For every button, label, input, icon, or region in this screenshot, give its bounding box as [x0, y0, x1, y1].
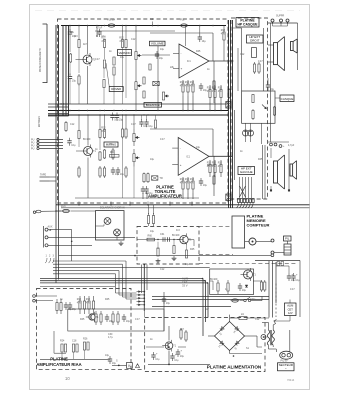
svg-text:CASQUE: CASQUE — [281, 97, 294, 101]
svg-text:BC109: BC109 — [210, 278, 218, 281]
svg-text:SUPPR: SUPPR — [276, 15, 285, 18]
svg-text:PRISE DIN MAGNETO: PRISE DIN MAGNETO — [39, 48, 42, 72]
svg-text:10µ: 10µ — [105, 354, 110, 357]
svg-text:10µ: 10µ — [115, 173, 120, 176]
svg-text:IC3: IC3 — [176, 229, 180, 232]
svg-text:10µ: 10µ — [295, 279, 300, 282]
svg-text:+: + — [181, 67, 183, 71]
svg-text:CET: CET — [182, 280, 188, 284]
svg-text:AMPLIFICATEUR RIAA: AMPLIFICATEUR RIAA — [36, 362, 81, 367]
svg-text:10µ: 10µ — [150, 230, 155, 233]
svg-text:TAPE: TAPE — [40, 174, 46, 177]
svg-text:10µ: 10µ — [160, 48, 165, 51]
svg-text:100n: 100n — [250, 298, 256, 301]
svg-text:C61: C61 — [160, 233, 165, 236]
svg-text:TR: TR — [160, 177, 163, 180]
svg-text:BALANCE: BALANCE — [146, 103, 160, 107]
svg-text:10µ: 10µ — [112, 362, 117, 365]
svg-text:VERSION: VERSION — [119, 51, 131, 55]
svg-text:4,7µ: 4,7µ — [108, 336, 113, 339]
svg-text:10µ: 10µ — [120, 56, 125, 59]
svg-text:CET: CET — [288, 307, 294, 311]
svg-text:10µ: 10µ — [180, 355, 185, 358]
svg-text:10µ: 10µ — [72, 80, 77, 83]
svg-text:C12: C12 — [70, 123, 75, 126]
svg-text:10µ: 10µ — [72, 308, 77, 311]
svg-text:C12: C12 — [255, 318, 260, 321]
svg-text:DRIVER: DRIVER — [111, 87, 121, 91]
svg-text:10µ: 10µ — [203, 184, 208, 187]
svg-text:C18: C18 — [72, 340, 77, 343]
svg-text:R45: R45 — [196, 50, 201, 53]
svg-text:0.47: 0.47 — [135, 318, 140, 321]
svg-text:C12: C12 — [240, 53, 245, 56]
svg-text:+: + — [180, 163, 182, 167]
svg-text:10µ: 10µ — [148, 125, 153, 128]
svg-text:~: ~ — [285, 367, 287, 371]
svg-text:33 V: 33 V — [182, 283, 188, 287]
svg-text:HP CASQUE: HP CASQUE — [237, 23, 258, 27]
svg-text:10µ: 10µ — [159, 57, 164, 60]
svg-text:10µ: 10µ — [143, 125, 148, 128]
svg-text:PU: PU — [31, 148, 35, 151]
svg-text:0.47: 0.47 — [95, 58, 100, 61]
svg-text:0.47: 0.47 — [131, 123, 136, 126]
svg-text:AUX: AUX — [48, 225, 53, 228]
svg-text:10µ: 10µ — [185, 263, 190, 266]
svg-text:10µ: 10µ — [71, 144, 76, 147]
svg-text:10: 10 — [65, 376, 70, 381]
svg-text:R60: R60 — [148, 235, 153, 238]
svg-text:ALIM: ALIM — [287, 303, 293, 307]
svg-text:ECLAIRAGE CADRAN: ECLAIRAGE CADRAN — [100, 207, 125, 210]
svg-text:10µ: 10µ — [150, 158, 155, 161]
svg-text:BC109: BC109 — [83, 138, 91, 141]
svg-text:12V: 12V — [288, 311, 293, 315]
svg-text:10µ: 10µ — [242, 289, 247, 292]
svg-text:2A: 2A — [241, 313, 244, 316]
svg-text:0.47: 0.47 — [160, 138, 165, 141]
svg-text:GAUCHE: GAUCHE — [240, 170, 253, 174]
svg-text:10µ: 10µ — [120, 173, 125, 176]
svg-text:DROIT: DROIT — [250, 39, 260, 43]
svg-text:0.47: 0.47 — [258, 60, 263, 63]
svg-text:10µ: 10µ — [202, 40, 207, 43]
svg-text:4,7µF: 4,7µF — [288, 144, 295, 147]
svg-text:10µ: 10µ — [155, 358, 160, 361]
svg-text:C12: C12 — [131, 38, 136, 41]
svg-text:PLATINE ALIMENTATION: PLATINE ALIMENTATION — [207, 365, 262, 370]
svg-text:IC1: IC1 — [186, 155, 190, 158]
svg-text:10µ: 10µ — [148, 192, 153, 195]
svg-text:4,7µF: 4,7µF — [96, 27, 103, 30]
svg-text:FU1 2A: FU1 2A — [107, 19, 116, 22]
svg-text:VOLUME: VOLUME — [151, 41, 164, 45]
svg-text:R45: R45 — [190, 248, 195, 251]
svg-text:BC109: BC109 — [172, 234, 180, 237]
svg-text:FU2: FU2 — [180, 19, 185, 22]
svg-text:R26: R26 — [83, 338, 88, 341]
svg-text:0.47: 0.47 — [290, 288, 295, 291]
svg-text:PIL: PIL — [285, 237, 290, 241]
svg-text:-: - — [181, 52, 182, 56]
svg-text:4k7: 4k7 — [205, 308, 210, 311]
svg-text:R45: R45 — [80, 318, 85, 321]
svg-text:IC1: IC1 — [187, 60, 191, 63]
svg-text:ENTREES: ENTREES — [39, 116, 41, 127]
svg-text:10µ: 10µ — [174, 359, 179, 362]
svg-text:ALIM: ALIM — [182, 277, 189, 281]
svg-text:10µ: 10µ — [166, 302, 171, 305]
svg-text:COMPTEUR: COMPTEUR — [247, 222, 270, 227]
svg-text:10µ: 10µ — [126, 320, 131, 323]
svg-text:10µ: 10µ — [196, 146, 201, 149]
svg-text:4k7: 4k7 — [180, 328, 185, 331]
svg-text:R45: R45 — [105, 298, 110, 301]
svg-text:C12: C12 — [160, 268, 165, 271]
svg-text:76414: 76414 — [287, 378, 295, 382]
svg-text:BC109: BC109 — [207, 164, 215, 167]
svg-text:FU3: FU3 — [61, 205, 66, 208]
svg-text:10µ: 10µ — [119, 119, 124, 122]
svg-text:R24: R24 — [60, 340, 65, 343]
svg-text:10µ: 10µ — [109, 143, 114, 146]
svg-text:4k7: 4k7 — [83, 43, 88, 46]
svg-text:R45: R45 — [258, 158, 263, 161]
svg-text:-: - — [180, 146, 181, 150]
